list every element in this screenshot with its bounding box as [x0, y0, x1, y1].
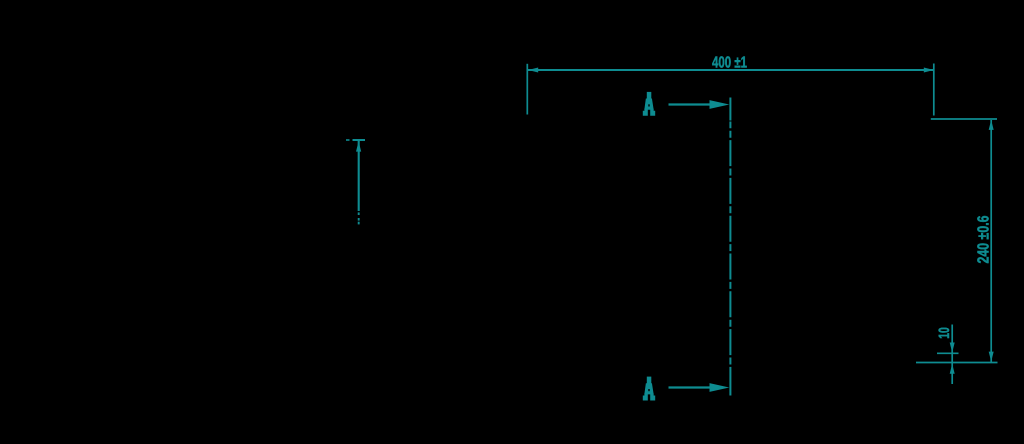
section arrow bottom: [669, 383, 730, 392]
dimension 400 right extension line: [933, 64, 935, 116]
dimension 10 dimension line: [951, 325, 953, 385]
dimension 240 bottom arrowhead: [989, 352, 994, 362]
section line A-A top solid segment: [729, 98, 731, 121]
dimension 10 lower arrowhead: [950, 364, 955, 374]
left height dimension arrowhead: [356, 141, 361, 151]
section label A bottom: [643, 377, 654, 400]
svg-text:400 ±1: 400 ±1: [712, 54, 747, 71]
svg-text:10: 10: [936, 327, 953, 339]
left height dimension edge tick: [346, 139, 365, 141]
left height dimension dashed tail: [358, 212, 360, 224]
svg-text:240 ±0.6: 240 ±0.6: [976, 215, 993, 263]
section label A top: [643, 92, 654, 115]
dimension 400 left extension line: [526, 64, 528, 115]
section line A-A dashed segment: [729, 122, 731, 375]
left height dimension line: [358, 141, 360, 211]
dimension 240 bottom extension line: [916, 362, 998, 364]
dimension 240 top extension line: [931, 118, 997, 120]
dimension 10 upper extension line: [937, 352, 959, 354]
dimension 240 dimension line: [990, 120, 992, 362]
dimension 240 top arrowhead: [989, 120, 994, 130]
dimension 400 right arrowhead: [924, 68, 934, 73]
dimension 400 dimension line: [528, 69, 934, 71]
section line A-A bottom solid segment: [729, 375, 731, 396]
section arrow top: [669, 100, 730, 109]
dimension 10 upper arrowhead: [950, 343, 955, 353]
dimension 400 left arrowhead: [528, 68, 538, 73]
